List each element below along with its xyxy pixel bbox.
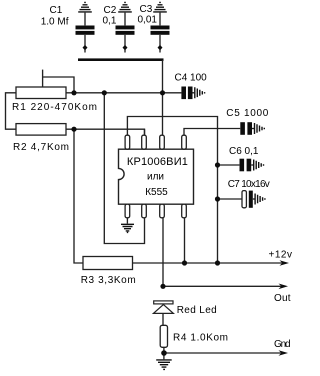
svg-text:Gnd: Gnd — [274, 339, 291, 350]
svg-text:или: или — [147, 171, 164, 182]
svg-text:0,1: 0,1 — [103, 16, 117, 27]
svg-text:КР1006ВИ1: КР1006ВИ1 — [127, 156, 188, 168]
svg-text:R4 1.0Kom: R4 1.0Kom — [173, 332, 228, 343]
svg-text:0,01: 0,01 — [138, 15, 158, 26]
svg-text:К555: К555 — [145, 187, 168, 198]
svg-text:Out: Out — [274, 293, 291, 304]
svg-text:R3 3,3Kom: R3 3,3Kom — [81, 275, 136, 286]
svg-text:Red Led: Red Led — [177, 305, 217, 316]
svg-text:1.0 Mf: 1.0 Mf — [41, 16, 69, 27]
svg-text:C6 0,1: C6 0,1 — [229, 146, 259, 157]
svg-text:C5 1000: C5 1000 — [226, 108, 268, 119]
svg-text:C4 100: C4 100 — [175, 73, 208, 84]
svg-text:C2: C2 — [104, 5, 117, 16]
svg-text:+12v: +12v — [269, 250, 293, 261]
svg-text:R2 4,7Kom: R2 4,7Kom — [13, 142, 69, 153]
svg-text:C1: C1 — [50, 5, 63, 16]
svg-text:R1 220-470Kom: R1 220-470Kom — [12, 102, 97, 113]
svg-text:C3: C3 — [140, 4, 153, 15]
svg-text:C7 10x16v: C7 10x16v — [228, 179, 270, 190]
